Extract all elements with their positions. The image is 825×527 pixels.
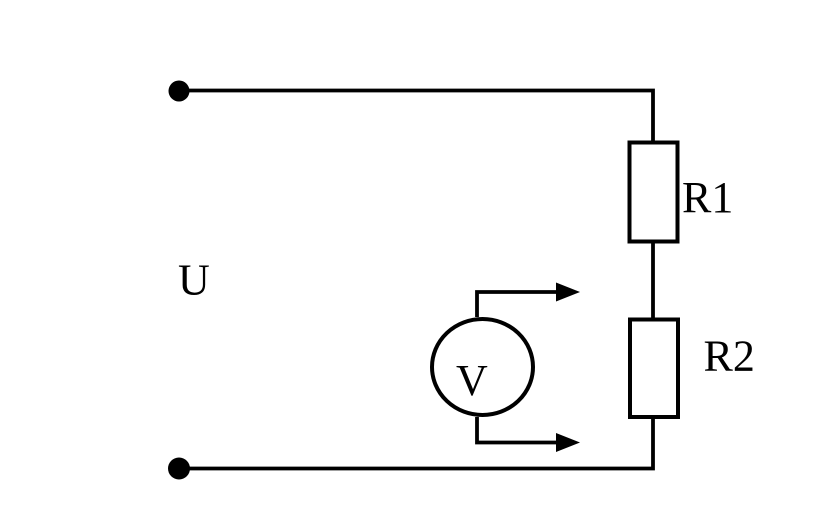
svg-text:U: U <box>178 256 210 305</box>
svg-text:R1: R1 <box>682 173 733 222</box>
svg-text:R2: R2 <box>704 332 755 381</box>
svg-text:V: V <box>456 356 488 405</box>
